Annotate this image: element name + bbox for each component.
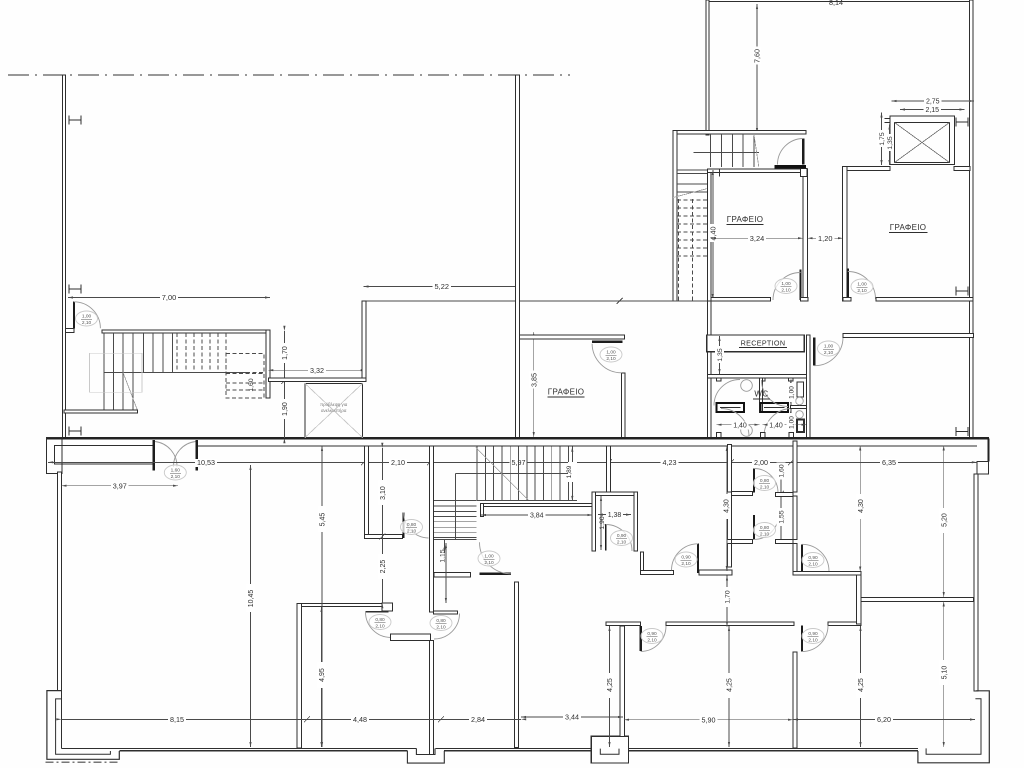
dimension 4,25 c <box>860 626 862 747</box>
door in wall y623 <box>640 626 642 651</box>
svg-text:4,30: 4,30 <box>724 499 731 513</box>
dimension 4,25 a <box>609 626 611 747</box>
office room 2 left wall <box>843 167 848 302</box>
svg-text:5,22: 5,22 <box>435 282 449 291</box>
svg-text:1,60: 1,60 <box>248 378 255 391</box>
lobby stubs <box>732 492 753 496</box>
svg-text:2,10: 2,10 <box>617 540 627 546</box>
column marker left band <box>69 430 81 432</box>
svg-text:2,10: 2,10 <box>82 320 92 326</box>
door D <box>801 544 803 571</box>
svg-text:ΓΡΑΦΕΙΟ: ΓΡΑΦΕΙΟ <box>548 388 585 397</box>
svg-text:0,80: 0,80 <box>760 478 770 484</box>
office room 1 left wall <box>708 169 712 301</box>
entrance step middle <box>407 749 444 764</box>
room top wall y503 <box>481 504 592 507</box>
lower block top band outer line <box>46 437 989 439</box>
dimension 4,25 b <box>728 626 730 747</box>
svg-text:2,10: 2,10 <box>436 625 446 631</box>
bottom stair diagonal <box>476 448 529 501</box>
svg-text:3,44: 3,44 <box>565 713 579 722</box>
svg-text:1,40: 1,40 <box>733 422 747 429</box>
reception top wall right <box>843 334 974 338</box>
top-right block left wall <box>706 0 709 135</box>
svg-text:3,84: 3,84 <box>530 513 544 520</box>
svg-text:3,32: 3,32 <box>310 366 324 375</box>
wc toilet 2 <box>797 420 804 433</box>
bottom dashed line left <box>46 761 121 763</box>
svg-text:0,80: 0,80 <box>407 522 417 528</box>
dimension 1,35 reception <box>719 336 721 374</box>
svg-text:2,10: 2,10 <box>760 532 770 538</box>
stub walls right section <box>776 492 794 496</box>
svg-text:1,35: 1,35 <box>887 136 894 149</box>
main interior dimension line <box>48 461 977 463</box>
svg-text:7,00: 7,00 <box>162 293 176 302</box>
svg-text:4,25: 4,25 <box>607 678 614 692</box>
dimension 1,35 elevator <box>889 125 891 166</box>
dimension 1,38 <box>598 514 631 516</box>
wall closet corner down <box>640 552 643 573</box>
dimension 4,95 <box>321 607 323 747</box>
dimension 3,24 <box>711 237 803 239</box>
column marker 2 on left wall <box>69 288 81 290</box>
svg-text:2,10: 2,10 <box>824 350 834 356</box>
svg-text:2,10: 2,10 <box>375 624 385 630</box>
top-right block right wall <box>970 0 974 438</box>
svg-text:1,00: 1,00 <box>824 343 834 349</box>
big stair top wall <box>102 330 270 333</box>
wall y599 <box>861 597 974 601</box>
wall y573 with door K <box>434 573 471 578</box>
svg-text:4,25: 4,25 <box>858 678 865 692</box>
svg-text:2,10: 2,10 <box>484 560 494 566</box>
wall left of door F <box>640 570 673 574</box>
svg-text:0,90: 0,90 <box>808 555 818 561</box>
elevator shaft <box>890 116 955 165</box>
svg-text:1,60: 1,60 <box>171 467 181 473</box>
svg-text:3,10: 3,10 <box>380 486 387 500</box>
stair side dimension line <box>283 331 285 438</box>
wc door arc left top <box>714 380 740 406</box>
dimension 3,32 <box>268 369 365 371</box>
svg-text:0,80: 0,80 <box>375 617 385 623</box>
bottom stair upper treads <box>476 447 478 501</box>
wc block left wall <box>708 301 712 438</box>
lobby wall x729 <box>728 445 732 493</box>
double door 1,60 <box>153 440 156 471</box>
door mid room <box>592 340 622 342</box>
stair enclosure left wall <box>673 131 677 302</box>
svg-text:6,35: 6,35 <box>882 458 896 467</box>
svg-text:1,35: 1,35 <box>717 348 724 361</box>
column marker lower right wall <box>956 290 968 292</box>
svg-text:1,60: 1,60 <box>779 464 786 477</box>
wc door arc right top <box>762 380 789 407</box>
wc sink circle top <box>741 380 753 392</box>
door I arc <box>434 614 460 640</box>
bottom stair bottom edge <box>477 500 577 502</box>
svg-text:1,00: 1,00 <box>484 553 494 559</box>
svg-text:1,20: 1,20 <box>818 234 832 243</box>
wall x620 room divider <box>620 626 625 736</box>
bottom dimension 5,90 <box>624 719 793 721</box>
svg-text:2,10: 2,10 <box>681 561 691 567</box>
dimension 1,89 <box>571 447 573 501</box>
left window band <box>54 446 153 465</box>
dimension 4,30 right <box>859 446 861 572</box>
svg-text:0,80: 0,80 <box>436 618 446 624</box>
dimension 4,40 <box>712 170 714 299</box>
dimension 5,10 <box>943 602 945 748</box>
wall y623 segments <box>606 622 641 626</box>
svg-text:2,10: 2,10 <box>407 529 417 535</box>
svg-text:2,10: 2,10 <box>647 638 657 644</box>
svg-text:1,70: 1,70 <box>282 346 289 360</box>
dimension 1,60 lobby <box>780 462 782 493</box>
dimension 3,10 2,25 <box>381 448 383 603</box>
wc bottom jambs <box>717 433 722 438</box>
entrance step 2 <box>591 736 628 763</box>
wc toilet 1 <box>797 382 804 397</box>
column marker band right <box>956 431 968 433</box>
partition big room right <box>365 446 369 539</box>
dimension 3,97 <box>62 485 179 487</box>
wc right wall <box>807 335 811 438</box>
door E <box>801 626 803 652</box>
svg-text:1,00: 1,00 <box>781 281 791 287</box>
bottom stair lower treads <box>434 500 477 502</box>
door office 2 <box>847 269 849 300</box>
balcony door <box>802 139 804 165</box>
svg-text:πρόβλεψη για: πρόβλεψη για <box>320 402 348 407</box>
wc vanity left <box>717 403 745 412</box>
band inner line <box>198 445 977 447</box>
dimension 4,30 left <box>726 446 728 571</box>
svg-text:1,89: 1,89 <box>566 465 573 478</box>
svg-text:2,10: 2,10 <box>606 356 616 362</box>
svg-text:1,90: 1,90 <box>282 402 289 416</box>
dimension 3,84 <box>481 514 593 516</box>
lower left exterior wall <box>58 472 62 690</box>
right wall lower part <box>793 652 797 748</box>
wall right of stair hall <box>362 301 366 381</box>
big stair solid treads <box>103 333 105 372</box>
corridor wall above reception <box>519 335 624 339</box>
dimension 5,45 <box>321 446 323 747</box>
left pilaster block <box>47 438 63 474</box>
svg-text:2,84: 2,84 <box>471 715 485 724</box>
office room 2 top wall <box>847 167 890 171</box>
dimension 1,75 <box>881 113 883 166</box>
svg-text:1,55: 1,55 <box>779 510 786 523</box>
svg-text:1,00: 1,00 <box>788 416 795 429</box>
bottom stair center rail <box>454 474 456 540</box>
svg-text:10,53: 10,53 <box>197 458 215 467</box>
svg-text:0,90: 0,90 <box>681 554 691 560</box>
bottom-right corner block <box>918 691 989 763</box>
svg-text:0,80: 0,80 <box>760 525 770 531</box>
svg-text:2,10: 2,10 <box>781 288 791 294</box>
svg-text:2,00: 2,00 <box>754 458 768 467</box>
svg-text:2,10: 2,10 <box>171 474 181 480</box>
wc vanity right <box>761 403 789 412</box>
wc door arc left bottom <box>721 409 749 437</box>
reception counter <box>707 335 805 352</box>
wall x514 room divider <box>515 582 519 748</box>
svg-text:1,00: 1,00 <box>788 386 795 399</box>
svg-text:ΓΡΑΦΕΙΟ: ΓΡΑΦΕΙΟ <box>727 215 764 224</box>
svg-text:5,45: 5,45 <box>320 513 327 527</box>
wc jamb blocks <box>717 378 722 381</box>
svg-text:3,24: 3,24 <box>750 234 764 243</box>
door H arc <box>366 612 392 638</box>
svg-text:0,90: 0,90 <box>617 533 627 539</box>
big stair right wall <box>266 330 270 398</box>
svg-text:0,90: 0,90 <box>808 631 818 637</box>
mid room right wall <box>621 373 625 438</box>
mid-left block wall <box>516 75 520 438</box>
office 2 bottom wall <box>843 298 851 302</box>
svg-text:1,70: 1,70 <box>725 590 732 603</box>
door 1,00/2,10 in left wall <box>73 302 75 329</box>
svg-text:ανελκυστήρα: ανελκυστήρα <box>321 408 347 413</box>
wc toilet circle 2 <box>796 411 804 419</box>
office room 1 right wall <box>803 169 808 301</box>
big stair lower treads <box>103 372 105 411</box>
exterior wall left (upper block) <box>62 75 65 438</box>
reception door <box>813 338 815 366</box>
wc door arc right bottom <box>764 409 792 437</box>
balcony door sill (black) <box>775 165 807 169</box>
door H jamb <box>382 603 393 611</box>
stair corner landing lines <box>677 169 708 171</box>
bottom stair divider <box>455 473 577 475</box>
dimension 1,40 pair <box>717 424 760 426</box>
wall B x859 <box>857 575 861 624</box>
door F <box>697 544 699 574</box>
band right end <box>988 438 990 461</box>
wall y536 <box>365 535 403 539</box>
svg-text:1,15: 1,15 <box>439 549 446 562</box>
dimension 1,15 <box>445 543 447 603</box>
wc toilet circle 1 <box>796 397 804 405</box>
lobby door upper <box>753 469 755 493</box>
svg-text:2,15: 2,15 <box>925 107 939 114</box>
right section left wall segments <box>793 441 797 492</box>
stair enclosure top wall <box>673 131 806 135</box>
wc middle wall <box>760 378 763 413</box>
elevator door gap marks <box>885 118 891 120</box>
stair lower flight dashed treads <box>677 199 708 201</box>
svg-text:4,25: 4,25 <box>727 678 734 692</box>
bottom exterior wall upper line <box>61 747 416 749</box>
svg-text:1,00: 1,00 <box>857 281 867 287</box>
svg-text:8,15: 8,15 <box>170 715 184 724</box>
svg-text:5,90: 5,90 <box>702 715 716 724</box>
door office 1 <box>799 270 801 301</box>
wall between doors H I <box>391 634 431 641</box>
svg-text:2,75: 2,75 <box>926 99 940 106</box>
big stair bottom edge <box>64 410 138 413</box>
dimension 2,75 <box>892 100 975 102</box>
dimension 1,90 closet <box>600 496 602 550</box>
dimension 1,00 wc lower <box>790 409 792 436</box>
stair hall bottom wall <box>268 378 366 381</box>
dimension 1,00 wc upper <box>790 380 792 406</box>
column marker on left wall <box>69 119 81 121</box>
dimension 3,85 <box>533 332 535 437</box>
wall x608 small <box>607 446 611 492</box>
dimension 7,00 <box>68 297 270 299</box>
dimension 1,55 lobby <box>780 494 782 541</box>
closet door <box>605 524 607 551</box>
wc top wall <box>708 375 807 379</box>
svg-text:2,25: 2,25 <box>380 560 387 574</box>
elevator provision box <box>305 383 363 437</box>
lobby door lower <box>753 515 755 539</box>
dimension 1,70 corridor <box>726 576 728 627</box>
corridor edge line <box>366 300 709 302</box>
svg-text:10,45: 10,45 <box>248 590 255 608</box>
top-right block top wall <box>706 0 973 2</box>
right exterior wall lower <box>974 474 978 691</box>
lower-left corner block <box>47 691 119 760</box>
dimension 5,22 <box>364 286 521 288</box>
property boundary dash-dot line <box>8 74 570 76</box>
svg-text:2,10: 2,10 <box>808 562 818 568</box>
office 1 bottom wall <box>711 298 771 302</box>
svg-text:1,00: 1,00 <box>606 349 616 355</box>
stair hall left wall lower <box>430 446 434 612</box>
svg-text:0,90: 0,90 <box>647 631 657 637</box>
svg-text:3,85: 3,85 <box>529 373 538 387</box>
svg-text:1,00: 1,00 <box>82 313 92 319</box>
dimension 5,20 <box>943 446 945 598</box>
door I stub <box>434 611 458 614</box>
svg-text:4,30: 4,30 <box>858 499 865 513</box>
svg-text:1,38: 1,38 <box>608 512 622 519</box>
big stair divider <box>104 371 246 373</box>
svg-text:4,48: 4,48 <box>353 715 367 724</box>
door H' at wall y536 <box>403 513 405 539</box>
dimension 2,15 <box>900 109 965 111</box>
stair upper flight treads <box>710 134 712 167</box>
svg-text:3,97: 3,97 <box>113 481 127 490</box>
lobby bottom wall <box>699 570 732 575</box>
svg-text:WC: WC <box>754 390 768 399</box>
bottom dimension 3,44 <box>521 716 623 718</box>
faint platform rectangle <box>89 353 142 392</box>
bottom dimension 6,20 <box>793 719 975 721</box>
svg-text:1,90: 1,90 <box>599 516 606 529</box>
svg-text:7,60: 7,60 <box>753 49 762 63</box>
stair down arrow <box>444 540 446 553</box>
closet walls <box>592 492 638 496</box>
svg-text:1,40: 1,40 <box>769 422 783 429</box>
svg-text:2,10: 2,10 <box>760 485 770 491</box>
svg-text:ΓΡΑΦΕΙΟ: ΓΡΑΦΕΙΟ <box>890 223 927 232</box>
big stair dashed treads <box>176 333 178 372</box>
svg-text:6,20: 6,20 <box>877 715 891 724</box>
svg-text:RECEPTION: RECEPTION <box>741 338 786 347</box>
bottom dimension line left <box>62 718 522 720</box>
svg-text:2,10: 2,10 <box>857 288 867 294</box>
svg-text:4,23: 4,23 <box>663 458 677 467</box>
column marker right of elevator <box>956 121 968 123</box>
wall y573 <box>793 571 861 574</box>
big stair dashed landing <box>226 353 264 398</box>
left room wall x297 <box>297 603 302 748</box>
dimension 7,60 <box>756 4 758 133</box>
svg-text:5,20: 5,20 <box>941 513 948 527</box>
svg-text:2,10: 2,10 <box>808 638 818 644</box>
wc dividing wall right <box>791 405 807 408</box>
svg-text:2,10: 2,10 <box>391 458 405 467</box>
bottom exterior wall lower line <box>119 750 407 752</box>
svg-text:5,10: 5,10 <box>941 666 948 680</box>
dimension 10,45 <box>250 465 252 747</box>
svg-text:8,14: 8,14 <box>829 0 843 7</box>
dimension 1,20 <box>808 237 844 239</box>
office room 1 top wall <box>708 169 803 173</box>
wall y603 room divider <box>297 603 389 606</box>
wc sink circle bottom <box>741 425 753 437</box>
svg-text:4,95: 4,95 <box>319 668 326 682</box>
